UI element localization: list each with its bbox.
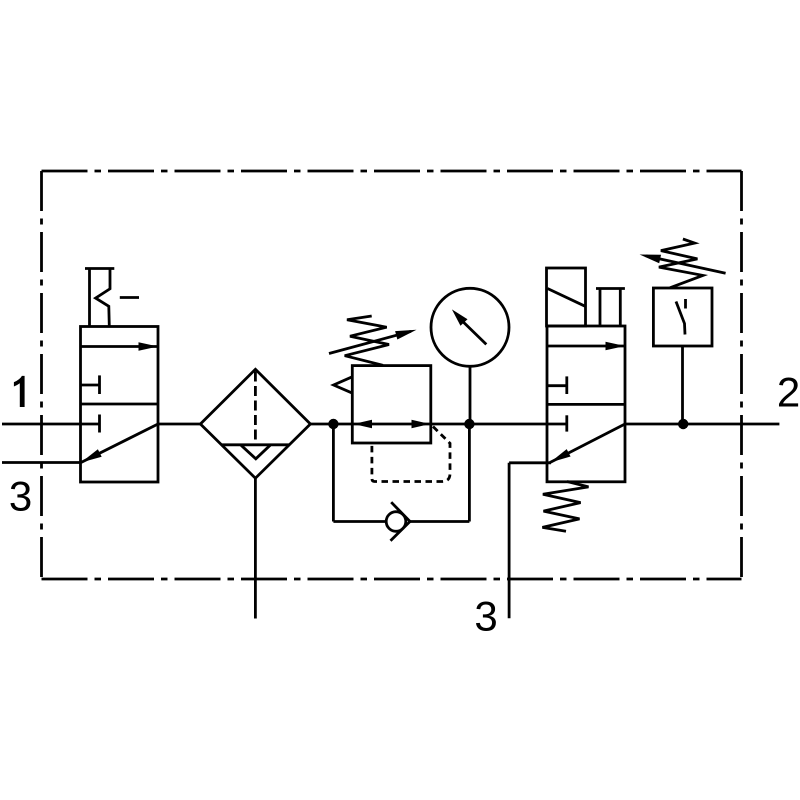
svg-text:2: 2 — [777, 369, 800, 416]
svg-text:3: 3 — [9, 473, 32, 520]
svg-text:3: 3 — [474, 593, 497, 640]
